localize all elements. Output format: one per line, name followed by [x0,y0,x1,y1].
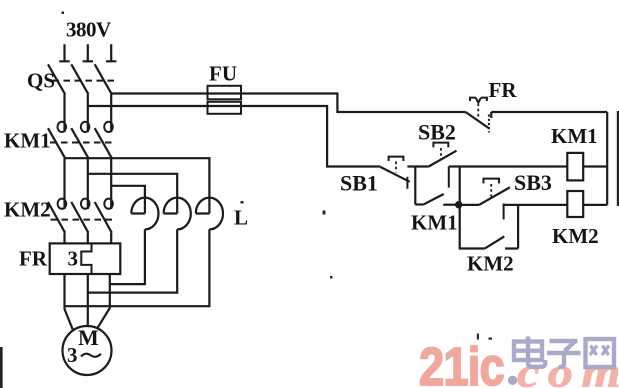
pushbutton SB2 (NO start) [429,143,457,188]
watermark char wang [586,339,615,367]
watermark dot [508,376,517,385]
svg-text:21ic: 21ic [419,336,504,388]
wire phase L3 to fuse FU [111,94,465,113]
coil KM1 [567,153,583,181]
contact KM1 auxiliary (hold-in) [415,194,455,205]
watermark char zi [547,341,581,367]
wire junction to SB3 [455,204,479,206]
wire L2 KM2 to FR [87,233,89,244]
wire L1 QS to KM1 [63,94,65,132]
terminal L1 [59,44,69,61]
svg-text:KM2: KM2 [552,224,599,248]
wire SB3 to KM2 coil [504,204,568,206]
pushbutton SB1 (NC stop) [381,157,410,189]
wire L2 QS to KM1 [87,94,89,132]
node junction dot [455,201,462,208]
wire drop to junction [459,167,461,249]
contactor KM1 main contact pole 1 [48,122,66,158]
coil KM2 [567,191,583,217]
fuse FU body [208,86,242,100]
svg-text:3: 3 [68,247,79,271]
svg-text:KM1: KM1 [551,124,598,148]
svg-text:FR: FR [19,247,48,271]
svg-text:L: L [234,206,248,230]
wire L3 KM1 to KM2 [110,158,112,209]
wire L1 KM2 to FR [63,233,65,244]
wire branch to KM1 aux [414,167,416,205]
contactor KM2 main contact pole 2 [71,199,89,233]
wire right rail [606,112,608,205]
svg-text:3: 3 [67,343,78,367]
wire tap phase1 to reactor 3 [65,158,210,213]
svg-text:KM1: KM1 [411,211,458,235]
wire FR to motor lead 2 [87,274,89,326]
wire tap phase3 to reactor 1 [111,186,145,214]
wire KM2 coil to rail [583,204,607,206]
switch QS pole 2 blade [71,64,88,94]
wire FR to motor lead 3 [98,274,110,328]
svg-text:KM1: KM1 [4,129,51,153]
reactor L coil 1 [109,198,158,285]
watermark char dian [514,337,545,367]
wire L3 QS to KM1 [110,94,112,132]
contactor KM2 main contact pole 3 [95,199,113,233]
terminal L3 [106,44,116,61]
thermal relay FR heater box [50,243,121,274]
svg-text:SB2: SB2 [418,120,456,145]
svg-text:KM2: KM2 [467,252,514,276]
wire L1 KM1 to KM2 [63,158,65,209]
wire KM1 coil to rail [583,165,607,167]
thermal relay FR contact (control) [466,98,492,133]
contactor KM1 main contact pole 3 [95,122,113,158]
wire phase L2 to control rail [88,106,381,167]
pushbutton SB3 (NO) [479,179,510,220]
svg-text:SB3: SB3 [514,170,552,195]
QS linkage dashed [53,80,115,82]
wire L2 KM1 to KM2 [87,158,89,209]
contactor KM1 main contact pole 2 [71,122,89,158]
svg-text:SB1: SB1 [340,171,378,196]
wire tap phase2 to reactor 2 [88,174,177,214]
KM1 linkage dashed [50,142,114,144]
watermark 21ic [419,336,619,388]
wire FR contact to right rail [491,111,607,113]
reactor L coil 3 [65,198,224,307]
switch QS pole 3 blade [95,64,112,94]
contactor KM2 main contact pole 1 [48,199,66,233]
switch QS pole 1 blade [48,64,65,94]
svg-text:M: M [78,325,99,350]
wire FR to motor lead 1 [65,274,74,330]
scan speck artifacts [62,12,493,340]
wire L3 KM2 to FR [110,233,112,244]
svg-text:QS: QS [27,69,55,93]
contact KM2 auxiliary (hold-in) [459,205,518,249]
terminal L2 [83,44,93,61]
motor M 3-phase [63,326,112,375]
wire rail SB1 to SB2 [407,165,428,167]
KM2 linkage dashed [51,219,114,221]
scan edge artifact right [617,111,619,206]
wire rail SB2 to KM1 coil [449,165,568,167]
svg-text:FU: FU [209,62,237,86]
scan edge artifact left [0,347,3,388]
svg-text:380V: 380V [66,18,111,42]
svg-text:FR: FR [489,78,518,102]
svg-text:KM2: KM2 [4,198,51,222]
reactor L coil 2 [88,198,191,293]
